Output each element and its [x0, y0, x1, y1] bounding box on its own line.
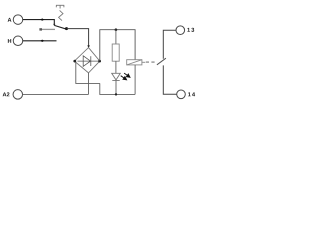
terminal 13 circle [176, 26, 185, 35]
node LED bottom [115, 93, 117, 95]
contact tip arrow on A stub [53, 24, 55, 26]
wire switch to bridge top [67, 29, 89, 46]
actuator zigzag [59, 10, 63, 20]
junction dot arm output [65, 27, 68, 30]
wire lower rail step down [100, 83, 135, 94]
contact lower lead [163, 65, 177, 94]
terminal 14 label [188, 92, 195, 96]
resistor R1 [112, 44, 119, 61]
terminal H label [8, 39, 11, 43]
node left vertex [73, 60, 76, 63]
wire resistor to LED [115, 61, 117, 73]
contact upper lead [163, 30, 176, 59]
LED emission arrows [121, 73, 130, 80]
relay coil K1 [127, 60, 142, 65]
arrow dot on wire A [40, 18, 44, 20]
selector alternate position (gray) [40, 28, 55, 30]
wire H [23, 40, 57, 42]
terminal A label [8, 18, 12, 22]
node resistor branch [115, 28, 118, 31]
terminal 13 label [187, 28, 194, 32]
wire bridge left vertex to lower rail [76, 62, 100, 83]
terminal A2 label [3, 92, 10, 96]
switch arm [55, 26, 67, 30]
arrow dot on wire H [40, 40, 44, 42]
terminal A circle [13, 15, 23, 25]
wire coil bottom to rail [134, 65, 136, 95]
mechanical linkage dashed [146, 61, 156, 63]
wire LED to bottom rail [115, 81, 117, 95]
wire rail to resistor [115, 30, 117, 44]
coil stub right [142, 61, 145, 63]
diode inside bridge [78, 56, 99, 67]
wire A [23, 20, 55, 25]
contact arm [157, 58, 166, 65]
LED [112, 73, 121, 80]
coil diagonal [127, 60, 142, 65]
node right vertex [98, 60, 101, 63]
terminal H circle [13, 36, 23, 46]
wire bridge right vertex to top rail [100, 30, 135, 61]
wire A2 to bridge bottom [23, 93, 89, 95]
gray contact block [39, 28, 42, 30]
bridge rectifier diamond [74, 48, 99, 73]
arrowhead into bridge top [87, 45, 90, 48]
jumper bridge symbol [56, 5, 64, 8]
terminal A2 circle [13, 90, 23, 100]
wire bridge bottom vertex down [88, 73, 90, 95]
terminal 14 circle [177, 90, 186, 99]
